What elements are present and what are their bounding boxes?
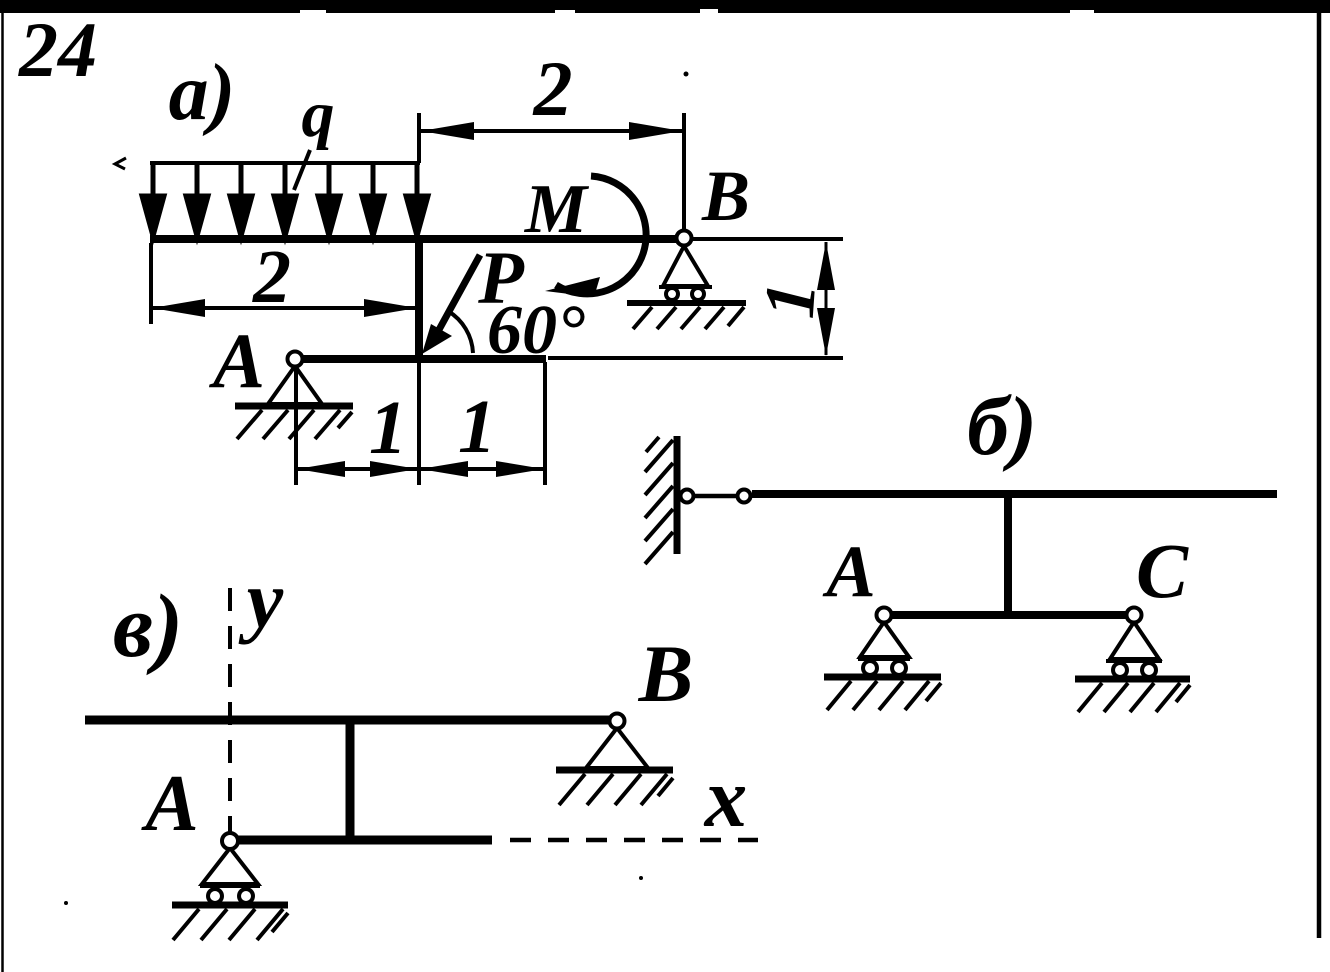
svg-text:1: 1	[749, 279, 831, 320]
page right border	[1317, 0, 1322, 938]
svg-text:A: A	[822, 531, 875, 613]
vertical member b	[1004, 494, 1012, 614]
svg-text:A: A	[140, 760, 198, 848]
svg-text:q: q	[302, 78, 335, 151]
dimension 2 top	[421, 45, 682, 140]
beam a upper	[150, 235, 686, 243]
moment arc M	[545, 176, 646, 297]
pin B (fig a)	[677, 231, 692, 246]
pin A (fig b)	[877, 608, 892, 623]
vertical member a	[415, 239, 423, 358]
svg-text:2: 2	[533, 45, 573, 132]
support B (fig v): pin	[556, 728, 673, 805]
pin A (fig v)	[222, 833, 238, 849]
stray dot left of A ground	[64, 901, 68, 905]
svg-text:x: x	[703, 751, 748, 845]
stray dot near x axis	[639, 876, 643, 880]
wall (fig b)	[645, 436, 677, 564]
beam b lower	[884, 611, 1135, 619]
x axis dashed	[510, 838, 758, 843]
pin A (fig a)	[288, 352, 303, 367]
svg-text:M: M	[524, 171, 590, 248]
distributed load q top line	[150, 161, 420, 165]
extension line x=684 above B	[682, 113, 686, 231]
beam b upper	[752, 490, 1277, 498]
support A (fig a): pin	[235, 366, 353, 439]
dimension 1 bottom left	[297, 386, 418, 477]
distributed load arrows	[142, 165, 428, 236]
force P arrow	[422, 255, 480, 354]
extension line x=419 above beam	[417, 113, 421, 163]
dimension 1 bottom right	[420, 385, 544, 477]
svg-text:1: 1	[369, 386, 407, 470]
vertical dimension 1 (right)	[749, 242, 835, 356]
svg-text:C: C	[1136, 527, 1189, 614]
svg-text:2: 2	[252, 235, 291, 319]
beam v lower	[230, 836, 492, 845]
angle arc 60	[448, 311, 473, 353]
q leader line	[294, 150, 310, 190]
pin C (fig b)	[1127, 608, 1142, 623]
stray mark left	[115, 158, 126, 169]
svg-text:1: 1	[458, 385, 496, 469]
page left border	[1, 13, 4, 972]
svg-text:B: B	[638, 628, 694, 719]
vertical member v	[346, 720, 355, 840]
svg-text:A: A	[208, 317, 265, 404]
y axis dashed	[228, 588, 232, 833]
beam a lower	[295, 355, 546, 363]
extension lines for bottom dims	[294, 368, 298, 485]
svg-text:б): б)	[967, 380, 1037, 473]
support A (fig v): roller	[172, 848, 288, 940]
link strut (fig b)	[681, 490, 751, 503]
svg-text:B: B	[701, 156, 750, 236]
thin line lower right (level of lower beam)	[548, 356, 843, 360]
pin B (fig v)	[610, 714, 625, 729]
page top border bar	[0, 0, 1330, 13]
support C (fig b): roller	[1075, 622, 1190, 712]
svg-text:в): в)	[113, 577, 183, 676]
support B (fig a): roller	[627, 246, 746, 329]
thin line right of B	[692, 237, 843, 241]
svg-text:24: 24	[18, 6, 97, 93]
svg-text:a): a)	[169, 49, 236, 137]
support A (fig b): roller	[824, 622, 941, 710]
beam v upper	[85, 716, 617, 725]
stray dot above B extension	[684, 72, 689, 77]
dimension 2 middle left	[151, 235, 417, 324]
